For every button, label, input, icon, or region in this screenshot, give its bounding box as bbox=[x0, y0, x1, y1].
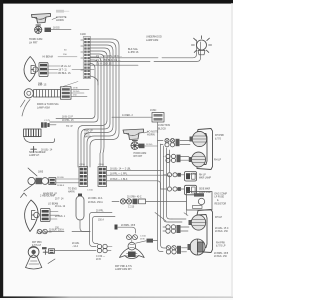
junction block feed wire bbox=[112, 116, 152, 118]
engine compartment lamp connectors bbox=[120, 199, 145, 205]
svg-text:20 LBL: 20 LBL bbox=[72, 243, 80, 245]
svg-text:LH FRT: LH FRT bbox=[29, 41, 38, 44]
photo border left bbox=[0, 0, 3, 298]
horn relay / motor asm circle bbox=[24, 89, 33, 98]
svg-text:150 A: 150 A bbox=[98, 219, 104, 222]
wire row label A (to underhood lamp) bbox=[90, 40, 197, 58]
side marker row 1 connectors bbox=[167, 173, 181, 177]
horn LH label pointer bbox=[52, 18, 57, 20]
park turn lamp LH diagonal tick bbox=[48, 259, 55, 264]
svg-text:& JPR 1S: & JPR 1S bbox=[128, 51, 139, 54]
wire row label C stub bbox=[90, 64, 138, 66]
svg-text:C160: C160 bbox=[99, 164, 105, 166]
headlamp LH HI bulb bbox=[31, 66, 38, 74]
svg-text:MKR LAMP: MKR LAMP bbox=[199, 177, 211, 180]
wire headlamp pin3 bbox=[48, 72, 58, 74]
headlamp LO bulb bbox=[32, 211, 40, 220]
motor asm body bbox=[34, 90, 61, 97]
bulkhead connector C100 bbox=[81, 37, 91, 79]
svg-text:20 PPL: 20 PPL bbox=[96, 210, 104, 212]
side marker row 2 connectors bbox=[167, 187, 181, 191]
svg-text:C 205: C 205 bbox=[190, 174, 197, 176]
engine compartment lamp box bbox=[187, 192, 213, 211]
photo border top bbox=[0, 0, 233, 4]
svg-text:HI BEAM: HI BEAM bbox=[43, 56, 53, 59]
wire row mid-bottom horizontal bbox=[118, 227, 136, 233]
svg-text:18 T- 11: 18 T- 11 bbox=[59, 70, 68, 72]
connector B (fwd lamp) bbox=[41, 122, 50, 127]
svg-text:18 LBL: 18 LBL bbox=[57, 177, 65, 179]
wire row label B (to underhood lamp) bbox=[90, 42, 201, 61]
svg-text:RH LP: RH LP bbox=[199, 174, 206, 176]
svg-text:1S — 150- 1S: 1S — 150- 1S bbox=[96, 63, 112, 66]
side marker row 1 wires bbox=[164, 174, 185, 176]
svg-text:20 LG- 12: 20 LG- 12 bbox=[55, 206, 66, 208]
svg-text:TO ENG: TO ENG bbox=[68, 188, 77, 190]
connector mid-bottom pair bbox=[127, 235, 138, 243]
side marker lamp 2 bbox=[185, 185, 197, 195]
inline connector C150 (left) bbox=[79, 167, 88, 187]
svg-text:C 210: C 210 bbox=[128, 206, 135, 208]
side marker row 2 wires bbox=[161, 188, 185, 190]
svg-text:1S — 150 BLK- 1S —: 1S — 150 BLK- 1S — bbox=[96, 59, 121, 62]
headlamp LO pins right bbox=[50, 212, 59, 220]
wire junction to bundle bbox=[157, 122, 159, 142]
page background bbox=[0, 0, 233, 300]
winged lamp feed bbox=[136, 241, 146, 243]
svg-text:18 DG: 18 DG bbox=[53, 28, 60, 30]
svg-text:20 LBL- 15 C: 20 LBL- 15 C bbox=[215, 228, 229, 230]
svg-text:LAMP LH: LAMP LH bbox=[29, 154, 39, 157]
svg-text:18 DG: 18 DG bbox=[73, 91, 80, 93]
svg-text:20 B: 20 B bbox=[96, 259, 101, 261]
bottom turn lamp bulb bbox=[189, 215, 206, 230]
svg-text:20 T- 14: 20 T- 14 bbox=[55, 198, 64, 200]
svg-text:20 BLK- 1: 20 BLK- 1 bbox=[55, 216, 66, 218]
headlamp LH HI connector bbox=[39, 63, 48, 77]
park turn lamp LH pins bbox=[42, 247, 55, 253]
svg-text:FRT PRK: FRT PRK bbox=[32, 242, 42, 244]
wire bottom long bbox=[55, 250, 97, 252]
RH park lamp bulb (top) bbox=[190, 131, 207, 146]
svg-text:SIDE MKR: SIDE MKR bbox=[199, 189, 210, 191]
right bundle verticals bbox=[158, 142, 173, 252]
pointer diagonal bbox=[60, 82, 78, 88]
svg-text:C 175: C 175 bbox=[44, 120, 51, 122]
wire bundle harness main loop bbox=[50, 39, 119, 167]
underhood lamp bbox=[191, 36, 211, 55]
photo border bottom faint bbox=[0, 296, 233, 298]
svg-text:18 DG: 18 DG bbox=[146, 144, 153, 146]
svg-text:18 LBL- 14 — 2 LBL: 18 LBL- 14 — 2 LBL bbox=[110, 169, 132, 171]
side marker LH wires right bbox=[56, 179, 79, 183]
svg-text:18 BLK: 18 BLK bbox=[57, 185, 65, 187]
wire bundle left pair to C150 bbox=[56, 64, 95, 119]
svg-text:20 BRN- 15 B: 20 BRN- 15 B bbox=[121, 225, 136, 227]
inline connector pair (turn) bbox=[166, 154, 181, 162]
bottom mid connector pair bbox=[97, 244, 112, 253]
svg-text:LAMP ASM: LAMP ASM bbox=[146, 39, 158, 42]
svg-text:HARN: HARN bbox=[68, 191, 75, 194]
wires motor asm right bbox=[71, 89, 89, 96]
svg-text:RH LP: RH LP bbox=[214, 158, 221, 161]
svg-text:LAMP ASM: LAMP ASM bbox=[37, 107, 50, 110]
lens arc lower left bbox=[22, 100, 30, 117]
headlamp LO connector bbox=[41, 209, 51, 222]
inline connector C160 (right) bbox=[98, 167, 107, 187]
svg-text:RESISTOR: RESISTOR bbox=[215, 203, 227, 205]
svg-text:18 BLK — 1 BLK: 18 BLK — 1 BLK bbox=[110, 179, 128, 181]
winged lamp symbol bbox=[120, 242, 145, 258]
motor asm connector bbox=[61, 87, 72, 99]
wire row to RH park lamp bbox=[158, 140, 191, 142]
park turn lamp LH base (volcano) bbox=[26, 255, 42, 269]
stray mark top bbox=[56, 10, 64, 13]
svg-text:20 BLK- 150: 20 BLK- 150 bbox=[215, 231, 228, 233]
svg-text:C 150: C 150 bbox=[87, 190, 94, 192]
svg-text:RH LP: RH LP bbox=[215, 216, 222, 219]
svg-text:& T/S LP: & T/S LP bbox=[216, 245, 226, 248]
svg-text:BLOCK: BLOCK bbox=[158, 127, 167, 130]
engine compartment lamp feed wire bbox=[112, 200, 186, 202]
wire pair descending bbox=[90, 213, 113, 247]
svg-text:1S — 40 ORN- 10 C —: 1S — 40 ORN- 10 C — bbox=[96, 55, 122, 58]
horn LH connector circle with cross bbox=[35, 25, 42, 33]
park turn lamp LH bulb circle bbox=[28, 247, 39, 258]
svg-text:LO BEAM: LO BEAM bbox=[48, 202, 58, 205]
svg-text:20 ORN- 40 A: 20 ORN- 40 A bbox=[88, 197, 103, 200]
svg-text:20 BRN- 15 B: 20 BRN- 15 B bbox=[214, 253, 229, 255]
wire horn feed bbox=[51, 28, 71, 30]
svg-text:18 B: 18 B bbox=[73, 87, 78, 89]
svg-text:C150: C150 bbox=[80, 164, 86, 166]
side marker lamp LH assembly bbox=[28, 177, 56, 184]
bottom bracket wires bbox=[169, 219, 186, 222]
svg-text:20 BLK- 150: 20 BLK- 150 bbox=[214, 256, 227, 258]
svg-text:2 HEADLAMP: 2 HEADLAMP bbox=[40, 194, 56, 197]
inline connector pair (park) bbox=[165, 139, 180, 147]
marker lamp LH tray profile bbox=[24, 138, 55, 143]
resistor pill component bbox=[76, 194, 90, 232]
svg-text:HORN: HORN bbox=[147, 133, 155, 137]
svg-text:FWD LP: FWD LP bbox=[84, 130, 93, 132]
wires from C160 right bbox=[107, 170, 164, 172]
horn RH connector circle bbox=[131, 141, 139, 150]
bottom turn lamp connectors bbox=[163, 225, 189, 233]
headlamp LO tick above bbox=[21, 193, 27, 198]
svg-text:20 BLK- 150 A: 20 BLK- 150 A bbox=[88, 201, 103, 204]
svg-text:18 B- 15 P: 18 B- 15 P bbox=[62, 116, 73, 118]
connector row upper-bottom bbox=[37, 229, 90, 234]
svg-text:18 B: 18 B bbox=[140, 238, 145, 240]
park turn lamp LH cross bbox=[43, 250, 47, 254]
svg-text:20 ORN- 40 C: 20 ORN- 40 C bbox=[127, 197, 142, 199]
svg-text:C100: C100 bbox=[80, 33, 86, 36]
svg-text:& T/S: & T/S bbox=[215, 138, 221, 141]
svg-text:C 150: C 150 bbox=[140, 235, 147, 237]
wire row to RH turn lamp bbox=[164, 155, 190, 157]
svg-text:LAMP ASM RH: LAMP ASM RH bbox=[115, 268, 132, 271]
svg-text:18 PPL — 1 PPL: 18 PPL — 1 PPL bbox=[110, 173, 128, 175]
svg-text:HARN: HARN bbox=[84, 136, 91, 139]
wire horn RH feed bbox=[145, 145, 158, 147]
side marker lamp 1 bbox=[185, 172, 197, 182]
svg-text:20 BLK- 150 A: 20 BLK- 150 A bbox=[49, 228, 64, 231]
RH front lamp housing bracket (bottom) bbox=[196, 210, 213, 253]
side marker lamp LH rays bbox=[24, 168, 37, 191]
horn RH label bbox=[144, 132, 149, 134]
headlamp LH HI (upper) lens bbox=[24, 57, 36, 82]
svg-text:18 PPL- 15: 18 PPL- 15 bbox=[62, 120, 74, 122]
svg-text:WRG: WRG bbox=[84, 133, 90, 135]
RH front lamp housing bracket (top) bbox=[197, 129, 213, 170]
bottom park lamp connectors bbox=[166, 246, 187, 254]
svg-text:20B: 20B bbox=[38, 82, 43, 85]
svg-text:- 14 A: - 14 A bbox=[72, 245, 78, 248]
svg-text:JUNC: JUNC bbox=[150, 109, 157, 112]
headlamp LH LO (lower) lens bbox=[25, 200, 38, 232]
diagonal wire to bottom bracket bbox=[155, 210, 188, 221]
marker lamp LH finned housing bbox=[24, 129, 42, 137]
photo border right faint bbox=[231, 3, 232, 297]
svg-text:150 BLK- 1S: 150 BLK- 1S bbox=[58, 73, 71, 75]
marker lamp LH cross bbox=[31, 147, 37, 153]
horn RH bracket bbox=[123, 129, 144, 140]
RH turn lamp bulb (top) bbox=[189, 152, 206, 167]
svg-text:ENG COMP: ENG COMP bbox=[215, 193, 228, 195]
svg-text:C 150 —: C 150 — bbox=[96, 256, 106, 258]
horn LH (top left) bracket bbox=[32, 14, 51, 24]
svg-text:18 LBL- 14: 18 LBL- 14 bbox=[41, 149, 53, 151]
svg-text:TO I P: TO I P bbox=[66, 126, 73, 128]
svg-text:1895: 1895 bbox=[38, 171, 44, 173]
junction block bbox=[152, 113, 164, 123]
svg-text:14 RED- 2: 14 RED- 2 bbox=[122, 115, 133, 117]
svg-text:18 LG- 12: 18 LG- 12 bbox=[61, 66, 72, 68]
svg-text:LP FUSE: LP FUSE bbox=[215, 197, 225, 199]
connector B wire bbox=[50, 124, 56, 126]
wire headlamp pin1 bbox=[48, 65, 61, 67]
svg-text:RH FRT: RH FRT bbox=[134, 155, 143, 158]
svg-text:HORN: HORN bbox=[56, 18, 64, 22]
horn RH feed connector bbox=[139, 144, 145, 149]
wire headlamp pin2 bbox=[48, 69, 95, 71]
bottom park lamp bulb bbox=[188, 239, 206, 255]
horn LH feed connector bbox=[45, 28, 52, 32]
